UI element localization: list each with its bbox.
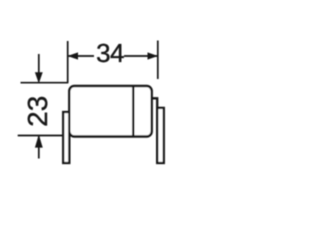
svg-text:34: 34 — [96, 38, 124, 68]
svg-text:23: 23 — [22, 96, 53, 127]
